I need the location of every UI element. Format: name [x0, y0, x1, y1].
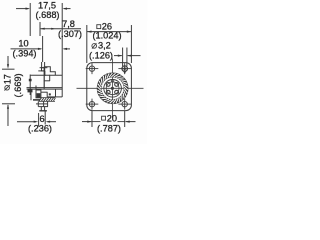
svg-text:10: 10 [18, 38, 28, 48]
svg-text:(1.024): (1.024) [92, 31, 121, 41]
svg-text:(.307): (.307) [58, 29, 82, 39]
svg-text:17: 17 [2, 74, 12, 84]
svg-text:(.787): (.787) [97, 123, 121, 133]
svg-text:(.394): (.394) [12, 49, 36, 59]
svg-text:(.688): (.688) [36, 10, 60, 20]
svg-text:6: 6 [39, 114, 44, 124]
svg-text:(.236): (.236) [28, 124, 52, 134]
svg-text:(.126): (.126) [89, 51, 113, 61]
svg-text:(.669): (.669) [13, 73, 23, 97]
svg-text:3,2: 3,2 [98, 41, 111, 51]
svg-text:20: 20 [107, 113, 117, 123]
svg-text:17,5: 17,5 [38, 0, 56, 10]
svg-text:7,8: 7,8 [62, 19, 75, 29]
